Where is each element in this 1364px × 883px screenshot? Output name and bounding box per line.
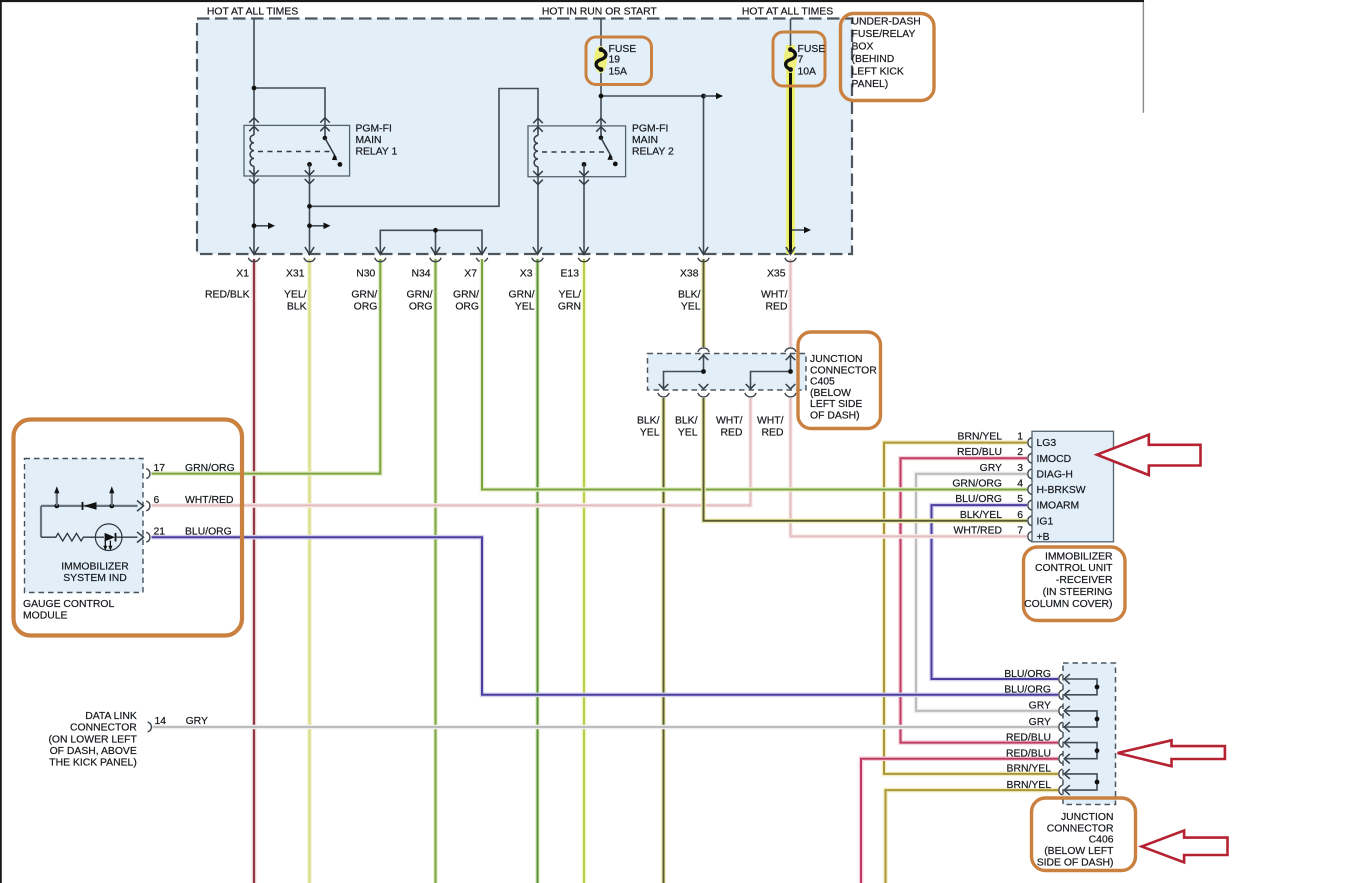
red arrow at IMOCD xyxy=(1097,435,1201,475)
svg-text:X31: X31 xyxy=(286,269,305,280)
diode (pointing left) xyxy=(82,502,84,510)
svg-text:RED/BLK: RED/BLK xyxy=(205,290,250,301)
svg-text:GRN: GRN xyxy=(558,302,581,313)
connector exits at box bottom xyxy=(249,247,795,254)
svg-text:UNDER-DASH: UNDER-DASH xyxy=(852,16,921,27)
relay PGM-FI MAIN RELAY 1 xyxy=(244,125,350,176)
svg-text:IMMOBILIZER: IMMOBILIZER xyxy=(61,562,129,573)
svg-text:GRY: GRY xyxy=(186,716,208,727)
svg-text:RELAY 1: RELAY 1 xyxy=(356,146,398,157)
svg-text:BLK/: BLK/ xyxy=(675,416,698,427)
wire X38 BLK/YEL to junction C405 xyxy=(701,259,706,347)
screenshot left border xyxy=(0,0,2,883)
wire bus N30/N34/X7 xyxy=(380,230,482,254)
node relay1 feed xyxy=(252,86,257,91)
node X38 branch xyxy=(701,94,706,99)
svg-text:GRY: GRY xyxy=(980,463,1002,474)
svg-text:1: 1 xyxy=(1017,432,1023,443)
LED indicator xyxy=(95,524,122,551)
junction connector C406 box xyxy=(1063,663,1116,805)
wire X7 GRN/ORG to immobilizer pin 4 H-BRKSW xyxy=(482,259,1027,490)
svg-text:YEL/: YEL/ xyxy=(284,290,307,301)
svg-text:PGM-FI: PGM-FI xyxy=(632,123,668,134)
svg-text:YEL: YEL xyxy=(678,427,698,438)
wire GRY immobilizer pin3 DIAG-H to C406 xyxy=(916,474,1058,711)
wire X35 WHT/RED to junction C405 xyxy=(788,259,793,347)
wire X1 RED/BLK vertical xyxy=(252,259,257,883)
relay2 pin chevrons xyxy=(533,118,606,184)
svg-text:LEFT KICK: LEFT KICK xyxy=(852,67,904,78)
fuse 19 15A xyxy=(586,37,652,85)
svg-text:+B: +B xyxy=(1037,532,1050,543)
svg-text:GRN/: GRN/ xyxy=(453,290,479,301)
svg-text:IG1: IG1 xyxy=(1037,516,1054,527)
svg-text:14: 14 xyxy=(155,716,167,727)
svg-text:BLU/ORG: BLU/ORG xyxy=(1004,685,1051,696)
svg-text:BLU/ORG: BLU/ORG xyxy=(185,527,232,538)
wire GRY data link pin14 to C406 xyxy=(153,725,1059,730)
junction connector C405 box xyxy=(648,354,807,391)
svg-text:LG3: LG3 xyxy=(1037,438,1057,449)
immobilizer system indicator box xyxy=(25,459,144,593)
scrollbar edge line xyxy=(1142,2,1144,113)
data link pin 14 xyxy=(148,722,152,732)
svg-text:MAIN: MAIN xyxy=(356,135,382,146)
svg-text:X3: X3 xyxy=(520,269,533,280)
svg-text:BLK/: BLK/ xyxy=(678,290,701,301)
svg-text:THE KICK PANEL): THE KICK PANEL) xyxy=(49,757,137,768)
svg-text:BRN/YEL: BRN/YEL xyxy=(1007,764,1052,775)
svg-text:BLK/YEL: BLK/YEL xyxy=(960,510,1002,521)
wire N30 GRN/ORG to gauge pin 17 xyxy=(152,259,381,474)
svg-text:5: 5 xyxy=(1017,494,1023,505)
svg-text:BLU/ORG: BLU/ORG xyxy=(1004,669,1051,680)
screenshot top border xyxy=(0,0,1144,2)
svg-text:DATA LINK: DATA LINK xyxy=(85,711,137,722)
wire X31 YEL/BLK vertical xyxy=(307,259,312,883)
svg-text:(BEHIND: (BEHIND xyxy=(852,54,895,65)
wire fuse19 to relay2 and X38 xyxy=(601,19,704,255)
wire X35 continuation arrow xyxy=(792,229,804,231)
wire X31 continuation arrow xyxy=(310,225,324,227)
immobilizer control unit-receiver box xyxy=(1032,431,1114,542)
svg-text:JUNCTION: JUNCTION xyxy=(810,354,863,365)
svg-text:YEL: YEL xyxy=(681,302,701,313)
svg-text:JUNCTION: JUNCTION xyxy=(1061,812,1114,823)
wire BRN/YEL immobilizer pin1 LG3 to C406 xyxy=(884,443,1058,774)
svg-text:HOT AT ALL TIMES: HOT AT ALL TIMES xyxy=(207,6,298,17)
svg-text:19: 19 xyxy=(609,55,621,66)
svg-text:N30: N30 xyxy=(356,269,375,280)
svg-text:WHT/RED: WHT/RED xyxy=(185,495,233,506)
svg-text:GAUGE CONTROL: GAUGE CONTROL xyxy=(23,599,114,610)
wire BLK/YEL C405 to immobilizer pin 6 IG1 xyxy=(704,398,1028,521)
svg-text:BOX: BOX xyxy=(852,41,874,52)
svg-text:PGM-FI: PGM-FI xyxy=(356,123,392,134)
callout IMMOBILIZER CONTROL UNIT xyxy=(1024,547,1126,621)
svg-text:IMOARM: IMOARM xyxy=(1037,501,1080,512)
gauge control module callout xyxy=(14,420,243,636)
svg-text:6: 6 xyxy=(154,495,160,506)
svg-text:FUSE: FUSE xyxy=(798,44,826,55)
wire RED/BLU off-page to C406 xyxy=(861,759,1058,883)
svg-text:RED/BLU: RED/BLU xyxy=(1006,749,1051,760)
svg-text:X38: X38 xyxy=(680,269,699,280)
wire BLU/ORG gauge pin21 to C406 xyxy=(152,537,1059,695)
callout JUNCTION CONNECTOR C405 xyxy=(798,332,881,429)
fuse 7 10A xyxy=(773,32,825,86)
svg-text:BRN/YEL: BRN/YEL xyxy=(958,432,1003,443)
indicator circuit pin6 rail xyxy=(41,506,138,537)
svg-text:C405: C405 xyxy=(810,377,835,388)
svg-text:(BELOW LEFT: (BELOW LEFT xyxy=(1044,846,1114,857)
wire WHT/RED C405 to immobilizer pin 7 +B xyxy=(791,398,1028,536)
resistor xyxy=(41,533,95,541)
callout UNDER-DASH FUSE/RELAY BOX xyxy=(841,14,935,101)
svg-text:IMOCD: IMOCD xyxy=(1037,454,1072,465)
callout JUNCTION CONNECTOR C406 xyxy=(1032,798,1136,871)
svg-text:WHT/: WHT/ xyxy=(716,416,743,427)
wire X3 GRN/YEL vertical xyxy=(535,259,540,883)
under-dash fuse/relay box outline xyxy=(197,19,852,255)
wire X1 continuation arrow xyxy=(254,225,268,227)
svg-text:SIDE OF DASH): SIDE OF DASH) xyxy=(1037,857,1114,868)
svg-text:GRN/ORG: GRN/ORG xyxy=(952,479,1002,490)
svg-text:YEL: YEL xyxy=(515,302,535,313)
wire feed continuation arrow right of X38 xyxy=(704,95,717,97)
svg-text:WHT/: WHT/ xyxy=(757,416,784,427)
svg-text:COLUMN COVER): COLUMN COVER) xyxy=(1024,599,1112,610)
svg-text:BLU/ORG: BLU/ORG xyxy=(955,494,1002,505)
svg-text:HOT IN RUN OR START: HOT IN RUN OR START xyxy=(542,6,658,17)
svg-text:FUSE/RELAY: FUSE/RELAY xyxy=(852,29,916,40)
svg-text:YEL: YEL xyxy=(640,427,660,438)
svg-text:RED: RED xyxy=(721,427,743,438)
svg-text:6: 6 xyxy=(1017,510,1023,521)
C406 internal link wires xyxy=(1064,679,1097,790)
svg-text:RED/BLU: RED/BLU xyxy=(1006,732,1051,743)
red arrow at C406 callout xyxy=(1142,831,1228,863)
svg-text:ORG: ORG xyxy=(409,302,433,313)
svg-text:E13: E13 xyxy=(561,269,580,280)
svg-text:X35: X35 xyxy=(767,269,786,280)
svg-text:HOT AT ALL TIMES: HOT AT ALL TIMES xyxy=(742,6,833,17)
svg-text:BRN/YEL: BRN/YEL xyxy=(1007,780,1052,791)
svg-text:ORG: ORG xyxy=(455,302,479,313)
svg-text:CONNECTOR: CONNECTOR xyxy=(1047,823,1114,834)
svg-text:PANEL): PANEL) xyxy=(852,79,889,90)
svg-text:GRY: GRY xyxy=(1029,701,1051,712)
svg-text:WHT/RED: WHT/RED xyxy=(954,525,1002,536)
svg-text:DIAG-H: DIAG-H xyxy=(1037,470,1073,481)
C405 internal wires xyxy=(664,354,791,391)
node X31 branch xyxy=(307,204,312,209)
wire WHT/RED C405 to gauge pin 6 xyxy=(152,398,751,505)
svg-text:7: 7 xyxy=(798,55,804,66)
svg-text:(BELOW: (BELOW xyxy=(810,388,851,399)
svg-text:RED: RED xyxy=(766,302,788,313)
gauge pin cups xyxy=(146,469,150,542)
wire E13 YEL/GRN vertical xyxy=(582,259,587,883)
highlighted wire X35 (yellow) xyxy=(786,45,795,254)
LED emission arrows xyxy=(104,541,106,547)
svg-text:FUSE: FUSE xyxy=(609,44,637,55)
relay1 pin chevrons xyxy=(249,118,330,184)
wire BLK/YEL C405 left exit vertical xyxy=(661,398,666,883)
svg-text:H-BRKSW: H-BRKSW xyxy=(1037,485,1086,496)
svg-text:LEFT SIDE: LEFT SIDE xyxy=(810,399,862,410)
svg-text:GRN/: GRN/ xyxy=(407,290,433,301)
svg-text:IMMOBILIZER: IMMOBILIZER xyxy=(1045,551,1113,562)
svg-text:GRN/: GRN/ xyxy=(509,290,535,301)
svg-text:SYSTEM IND: SYSTEM IND xyxy=(63,573,127,584)
svg-text:17: 17 xyxy=(154,463,166,474)
svg-text:CONNECTOR: CONNECTOR xyxy=(70,722,137,733)
circuit nodes xyxy=(54,504,59,509)
svg-text:OF DASH, ABOVE: OF DASH, ABOVE xyxy=(50,746,137,757)
svg-text:4: 4 xyxy=(1017,479,1023,490)
C405 entry chevrons and cups xyxy=(659,355,796,389)
svg-text:10A: 10A xyxy=(798,67,817,78)
svg-text:N34: N34 xyxy=(411,269,430,280)
up arrows xyxy=(56,493,58,506)
svg-text:2: 2 xyxy=(1017,447,1023,458)
wire RED/BLU immobilizer pin2 IMOCD to C406 xyxy=(901,458,1059,742)
svg-text:15A: 15A xyxy=(609,67,628,78)
svg-text:RED/BLU: RED/BLU xyxy=(957,447,1002,458)
svg-text:WHT/: WHT/ xyxy=(761,290,788,301)
svg-text:7: 7 xyxy=(1017,525,1023,536)
svg-text:21: 21 xyxy=(154,527,166,538)
svg-text:RELAY 2: RELAY 2 xyxy=(632,146,674,157)
svg-text:(ON LOWER LEFT: (ON LOWER LEFT xyxy=(48,735,137,746)
red arrow at C406 RED/BLU xyxy=(1118,740,1225,766)
node N34 xyxy=(433,228,438,233)
svg-text:GRY: GRY xyxy=(1029,717,1051,728)
wire relay1 output to X31 and relay2 coil xyxy=(310,89,539,255)
svg-text:BLK/: BLK/ xyxy=(637,416,660,427)
svg-text:BLK: BLK xyxy=(287,302,307,313)
highlighted wire X35 core xyxy=(789,68,792,254)
svg-text:GRN/ORG: GRN/ORG xyxy=(185,463,235,474)
svg-text:3: 3 xyxy=(1017,463,1023,474)
svg-text:CONNECTOR: CONNECTOR xyxy=(810,365,877,376)
svg-text:MAIN: MAIN xyxy=(632,135,658,146)
svg-text:MODULE: MODULE xyxy=(23,610,68,621)
relay PGM-FI MAIN RELAY 2 xyxy=(528,126,626,177)
svg-text:OF DASH): OF DASH) xyxy=(810,411,860,422)
svg-text:X1: X1 xyxy=(236,269,249,280)
svg-text:YEL/: YEL/ xyxy=(558,290,581,301)
node fuse19 out xyxy=(599,94,604,99)
wire battery feed to X1/relay1 xyxy=(254,19,325,255)
svg-text:(IN STEERING: (IN STEERING xyxy=(1043,587,1113,598)
svg-text:X7: X7 xyxy=(464,269,477,280)
wire BLU/ORG immobilizer pin5 IMOARM to C406 xyxy=(932,505,1059,679)
svg-text:C406: C406 xyxy=(1089,835,1114,846)
svg-text:ORG: ORG xyxy=(354,302,378,313)
svg-text:RED: RED xyxy=(762,427,784,438)
wire BRN/YEL off-page to C406 xyxy=(886,790,1059,883)
wire relay2 outputs to X3/E13 xyxy=(538,177,584,254)
svg-text:GRN/: GRN/ xyxy=(351,290,377,301)
svg-text:-RECEIVER: -RECEIVER xyxy=(1056,575,1113,586)
wire N34 GRN/ORG vertical xyxy=(433,259,438,883)
svg-text:CONTROL UNIT: CONTROL UNIT xyxy=(1035,563,1113,574)
